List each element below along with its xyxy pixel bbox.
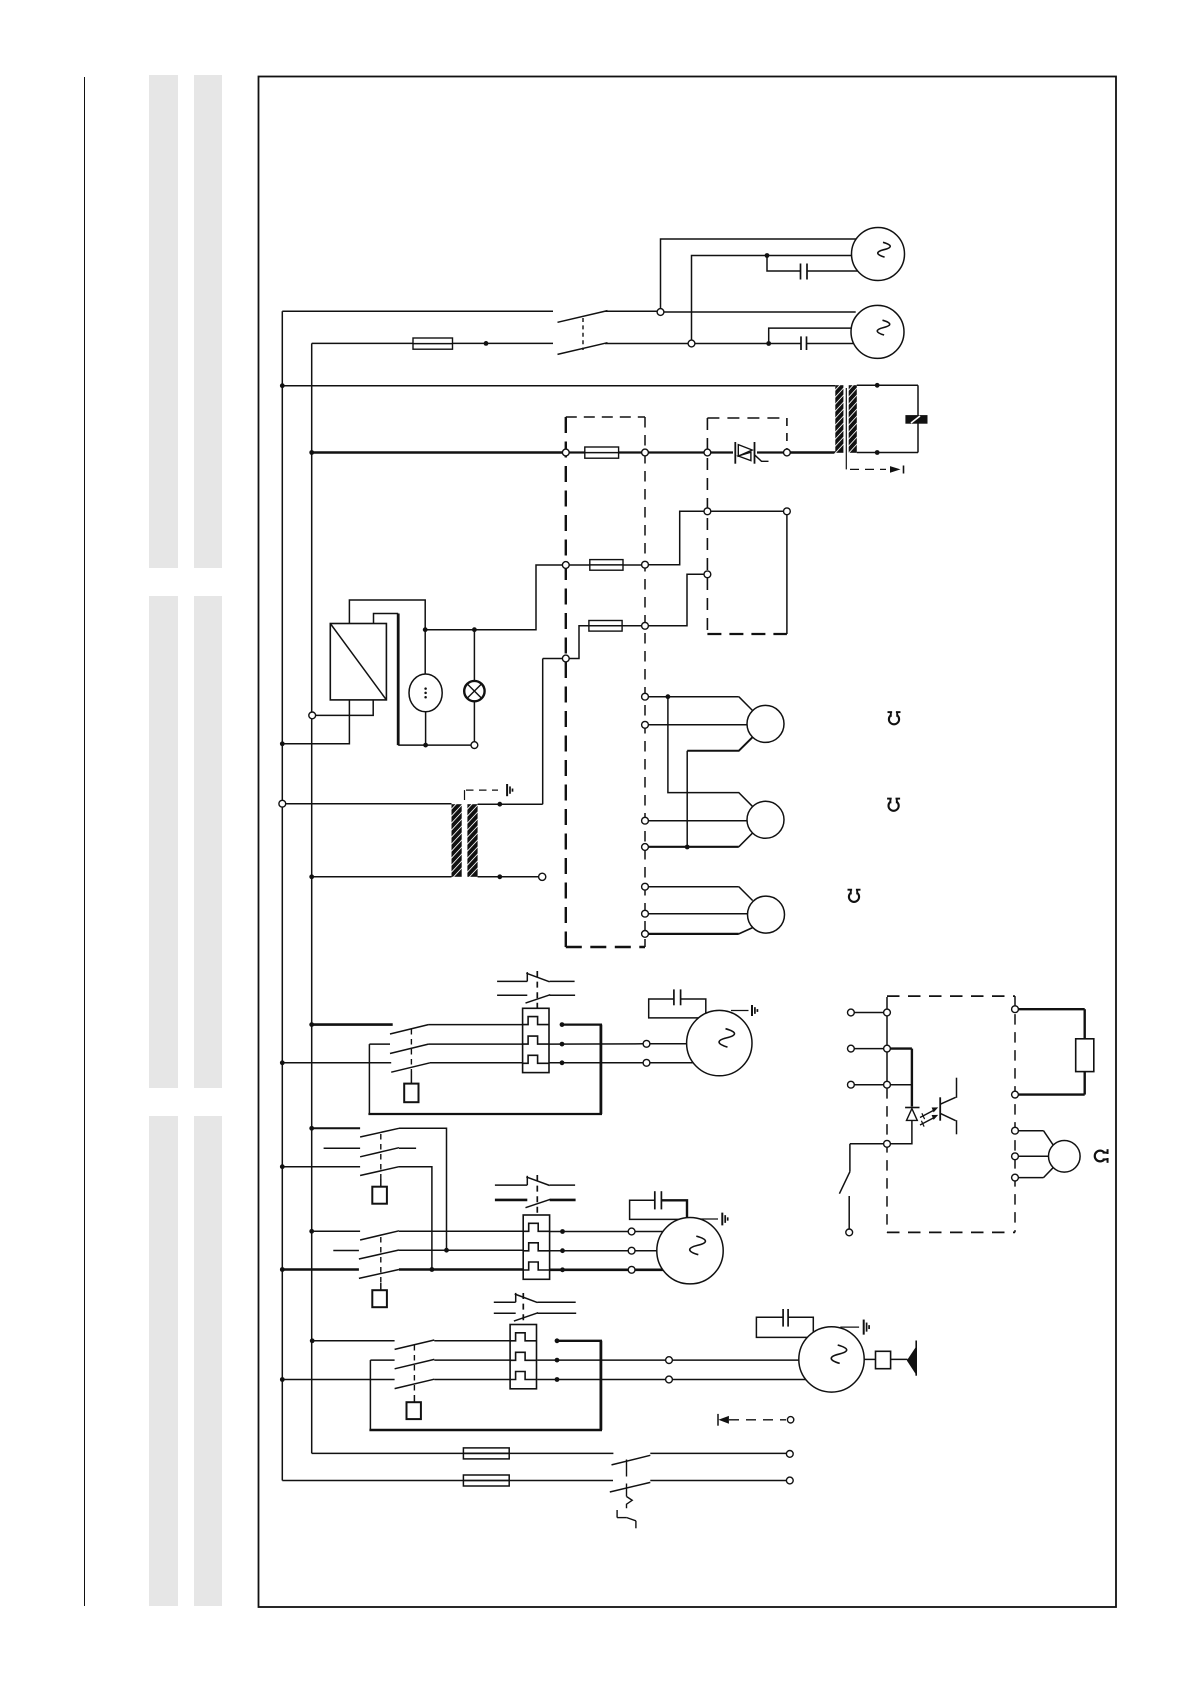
capacitor C2 (800, 336, 802, 350)
contactor K4 link (413, 1345, 415, 1395)
terminal heater 1b (642, 721, 649, 728)
enclosure dashed box left (565, 417, 567, 947)
fuse F6 (463, 1475, 509, 1486)
wire M2 bypass branch (769, 328, 851, 343)
wire K3 pole1 out (399, 1230, 523, 1232)
lamp E1 (464, 681, 484, 701)
aux link F7 (536, 971, 538, 1008)
wire rectifier top hook (349, 600, 425, 630)
wire fan lead3 (1018, 1177, 1043, 1179)
motor M1 (852, 228, 905, 281)
wire T1 secondary bottom (857, 452, 918, 454)
wire T2 secondary bottom (478, 876, 539, 878)
junction K4 pole3 feed (280, 1377, 285, 1382)
optocoupler light arrows (920, 1110, 934, 1117)
motor M5 (799, 1327, 864, 1392)
terminal actuator (787, 1417, 793, 1423)
triac V1 bars (734, 442, 736, 464)
junction K2 pole3 feed (280, 1164, 285, 1169)
junction M1 cap tap (765, 253, 770, 258)
wire heater1 bottom (687, 737, 752, 751)
wire rectifier bottom tab (316, 700, 374, 716)
terminal fan 3 (1012, 1174, 1019, 1181)
switch S1 link (582, 318, 584, 350)
wire F4 up to module (648, 574, 704, 626)
terminal M5 lead2 (666, 1376, 673, 1383)
wire M5 lead2 b (672, 1379, 805, 1381)
wire N bottom run (312, 1452, 464, 1454)
wire heater1 mid (648, 724, 747, 726)
transformer T2 secondary bar (467, 804, 477, 877)
wire L1 rail vertical (281, 311, 283, 1480)
junction K1 pole3 feed (280, 1060, 285, 1065)
wire F6 to S2 (509, 1480, 613, 1482)
wire fuse F3 row (569, 564, 590, 566)
terminal triac module in2 (704, 508, 711, 515)
wire K2 pole2 out stub (399, 1147, 416, 1149)
wire L1 bottom run (282, 1480, 463, 1482)
terminal module out 2 (1012, 1091, 1019, 1098)
label mho H1 (888, 711, 901, 724)
junction lamp tap (472, 627, 477, 632)
wire M5 lead2 (537, 1379, 665, 1381)
wire fan lead2 (1018, 1155, 1048, 1157)
junction rectifier tap (423, 627, 428, 632)
wire T2 secondary top (478, 803, 543, 805)
ground M3 (751, 1005, 753, 1016)
wire S3 lower lead (848, 1196, 850, 1229)
switch S1 pole 2 blade (558, 343, 608, 355)
terminal module in 1 (884, 1009, 891, 1016)
terminal heater 3a (642, 883, 649, 890)
terminal module stub 1 (848, 1009, 855, 1016)
wire C4 right thick (661, 1200, 687, 1217)
wire K1 pole2 feed (369, 1043, 390, 1045)
thermal trip linkage (626, 1460, 628, 1477)
junction K1 feed (309, 1022, 314, 1027)
motor M4 (657, 1218, 723, 1284)
wire module switch feed (850, 1143, 884, 1145)
terminal heater 3b (642, 910, 649, 917)
wire triac module right solid (786, 515, 788, 634)
terminal S3 (846, 1229, 853, 1236)
resistor R2 (1076, 1039, 1094, 1072)
wire bus upper (282, 385, 835, 387)
wire fan lead1 (1018, 1130, 1043, 1132)
terminal M4 lead3 (628, 1266, 635, 1273)
wire S1 pole1 to node (605, 310, 657, 312)
terminal bus fuse left (562, 449, 569, 456)
wire bus lower thick (312, 451, 563, 454)
enclosure dashed box top (566, 416, 645, 418)
aux link F9 (522, 1293, 524, 1325)
capacitor C5 (782, 1309, 784, 1327)
switch S1 pole 1 blade (558, 311, 608, 323)
label mho H2 (887, 798, 900, 811)
wire M4 lead2 b (635, 1250, 657, 1252)
terminal M4 lead1 (628, 1228, 635, 1235)
wire K2 pole2 stub (324, 1147, 361, 1149)
wire M5 lead1 (537, 1359, 665, 1361)
wire S2 pole2 out (650, 1480, 786, 1482)
coil K1 (404, 1084, 418, 1103)
terminal M4 lead2 (628, 1247, 635, 1254)
terminal F3 right (642, 561, 649, 568)
motor M2 (851, 305, 904, 358)
wire heater3 bottom (648, 933, 738, 935)
terminal triac module out1 (784, 449, 791, 456)
junction F9 out1 (555, 1338, 560, 1343)
terminal heater 2b (642, 844, 649, 851)
wire C4 left (630, 1200, 679, 1219)
wire node B up to M1 (692, 256, 852, 341)
contactor K3 pole1 blade (360, 1231, 399, 1240)
wire M1 cap branch (767, 256, 800, 272)
horn impeller (907, 1347, 916, 1375)
terminal triac module in1 (704, 449, 711, 456)
terminal module stub 3 (848, 1081, 855, 1088)
contactor K2 link (380, 1134, 382, 1179)
switch S2 pole1 blade (612, 1455, 651, 1465)
aux contacts F7 (497, 980, 527, 982)
grey sidebar band 3b (194, 1116, 222, 1606)
heating element R1 (905, 415, 927, 424)
switch S2 pole2 blade (610, 1482, 651, 1492)
wire K3 pole3 feed thick (282, 1268, 359, 1271)
ground M5 (863, 1320, 865, 1335)
wire C5 left (756, 1317, 807, 1337)
junction F8 out3 (560, 1267, 565, 1272)
wire K4 pole2 feed (370, 1359, 394, 1361)
actuator dashed arrow (718, 1416, 729, 1424)
module dashed box (887, 995, 1015, 997)
wire resistor loop top thick (1018, 1008, 1084, 1010)
contactor K4 pole1 blade (395, 1340, 435, 1349)
wire C5 right (788, 1317, 813, 1332)
junction F7 out2 (560, 1042, 565, 1047)
wire T2 screen (464, 790, 466, 800)
wire T2 secondary up (542, 659, 544, 805)
junction K3 pole3 feed (280, 1267, 285, 1272)
wire fuse F4 row (569, 626, 589, 659)
wire K4 pole2 out (434, 1359, 510, 1361)
terminal triac module gate (704, 571, 711, 578)
enclosure dashed box right (644, 417, 646, 947)
wire K2 pole1 feed (312, 1127, 360, 1129)
wire rectifier AC return (282, 700, 349, 744)
wire T2 primary bottom (312, 876, 452, 878)
wire C3 left (649, 999, 699, 1018)
coil K2 (372, 1187, 387, 1204)
contactor K3 pole3 blade (359, 1270, 399, 1279)
wire node A to M2 (664, 311, 856, 313)
junction L1 bus tap (280, 383, 285, 388)
wire coupling to horn (891, 1358, 908, 1360)
grey sidebar band 1b (194, 75, 222, 568)
terminal M3 lead1 (643, 1040, 650, 1047)
terminal heater 1a (642, 693, 649, 700)
wire heater3 top (648, 886, 738, 888)
contactor K2 pole3 blade (360, 1167, 399, 1176)
wire LED feed thick (890, 1047, 912, 1049)
wire K1 pole3 feed (282, 1062, 391, 1064)
wire heater1 top (648, 696, 738, 698)
wire K4 pole3 out (434, 1379, 510, 1381)
wire module stub 1 (854, 1012, 883, 1014)
junction F8 out2 (560, 1248, 565, 1253)
terminal triac module out2 (784, 508, 791, 515)
LED D1 (905, 1107, 919, 1109)
terminal module in 3 (884, 1081, 891, 1088)
fuse F2 (585, 447, 619, 458)
wire node A up to M1 (661, 239, 857, 309)
wire heater2 feed (668, 697, 753, 807)
wire N rail vertical (311, 343, 313, 1453)
wire S2 pole1 out (650, 1452, 786, 1454)
wire M4 earth lead (700, 1218, 718, 1220)
junction K3 pole1 feed (309, 1229, 314, 1234)
contactor K2 pole2 blade (360, 1148, 399, 1157)
terminal module stub 2 (848, 1045, 855, 1052)
contactor K1 pole1 blade (390, 1025, 428, 1034)
terminal M3 lead2 (643, 1059, 650, 1066)
wire lamp top lead (473, 630, 475, 681)
wire K4 pole1 out (434, 1340, 510, 1342)
wire F1 to S1 (453, 342, 554, 344)
transformer T1 secondary bar (849, 385, 857, 453)
contactor K2 pole1 blade (360, 1128, 399, 1137)
wire L1 to switch S1 (282, 310, 553, 312)
triac V1 triangles (738, 445, 752, 457)
schematic frame (259, 77, 1117, 1608)
junction heater bottom (685, 845, 690, 850)
switch S3 blade (839, 1172, 850, 1194)
grey sidebar band 2b (194, 596, 222, 1088)
terminal bottom 2 (786, 1477, 793, 1484)
wire F4 to box edge (622, 625, 642, 627)
fuse F5 (463, 1448, 509, 1459)
contactor K3 pole2 blade (359, 1250, 399, 1259)
aux contacts F8 (495, 1184, 527, 1186)
wire module stub 2 (854, 1048, 883, 1050)
contactor K1 link (410, 1029, 412, 1071)
wire F5 to S2 (509, 1452, 613, 1454)
fuse F1 (413, 338, 453, 349)
wire M3 lead1 (549, 1043, 643, 1045)
terminal rectifier AC (309, 712, 316, 719)
junction T2 primary bottom (309, 874, 314, 879)
capacitor C3 (673, 989, 675, 1005)
wire M3 lead2 (549, 1062, 643, 1064)
wire K3 pole3 out thick (399, 1268, 523, 1271)
capacitor C1 (800, 264, 802, 280)
ground M4 (721, 1213, 723, 1226)
overload relay F8 (523, 1215, 549, 1279)
contactor K4 pole3 blade (395, 1379, 435, 1388)
fuse F4 (589, 621, 622, 632)
grey sidebar band 3a (149, 1116, 178, 1606)
wire T1 secondary right (917, 385, 919, 452)
heater H3 (748, 896, 785, 933)
wire K3 pole2 out (399, 1249, 523, 1251)
wire S1 pole2 to node (605, 343, 688, 345)
wire triac to node (757, 451, 784, 453)
grey sidebar band 2a (149, 596, 178, 1088)
terminal F4 right (642, 622, 649, 629)
terminal bus fuse right (642, 449, 649, 456)
wire heater2 mid (648, 820, 747, 822)
wire F3 up to module (648, 511, 704, 564)
wire K3 pole1 feed (312, 1230, 360, 1232)
terminal F4 left (562, 655, 569, 662)
terminal module in 4 (884, 1140, 891, 1147)
enclosure dashed box bottom (566, 946, 645, 948)
capacitor C4 (654, 1191, 656, 1209)
junction F9 out3 (555, 1377, 560, 1382)
wire M3 lead2 b (650, 1062, 693, 1064)
transformer T2 primary bar (452, 804, 462, 877)
heater H1 (747, 705, 784, 742)
wire M3 lead1 b (650, 1043, 688, 1045)
junction F7 out1 (560, 1022, 565, 1027)
wire pump bottom lead (425, 712, 427, 745)
wire lamp bottom lead (473, 701, 475, 741)
wire M4 lead1 (550, 1231, 629, 1233)
wire node B to M2 (695, 343, 801, 345)
terminal F3 left (562, 562, 569, 569)
ground T2 screen (506, 784, 508, 796)
wire M4 lead1 b (635, 1231, 679, 1233)
transformer T1 primary bar (835, 385, 843, 453)
label mho H3 (848, 889, 861, 902)
wire M4 lead3 thick (550, 1269, 629, 1272)
wire F3 terminal to DC node (425, 565, 562, 630)
wire heater2 bottom (739, 833, 753, 847)
aux link F8 (536, 1175, 538, 1215)
terminal bottom 1 (786, 1451, 793, 1458)
node terminal A (657, 309, 664, 316)
wire K3 pole2 stub (333, 1250, 359, 1252)
wire K2 pole3 feed (282, 1166, 360, 1168)
wire C2 to M2 (807, 343, 856, 345)
phototransistor Q1 (939, 1097, 941, 1120)
junction K4 pole1 feed (310, 1338, 315, 1343)
terminal fan 2 (1012, 1153, 1019, 1160)
motor M3 (687, 1010, 752, 1075)
wire K1 pole1 feed thick (312, 1023, 393, 1026)
contactor K4 pole2 blade (395, 1359, 435, 1368)
wire F2 to box (619, 451, 642, 453)
wire LED anode (890, 1120, 912, 1143)
rectifier U1 (330, 624, 386, 700)
wire T2 primary top (286, 803, 452, 805)
wire M4 lead2 (550, 1250, 629, 1252)
overload relay F7 (523, 1008, 549, 1072)
terminal T2 primary top (279, 800, 286, 807)
triac V1 gate (755, 455, 769, 461)
terminal module out 1 (1012, 1006, 1019, 1013)
junction F9 out2 (555, 1358, 560, 1363)
wire K2 pole1 out (399, 1128, 447, 1250)
wire box to triac (648, 451, 733, 453)
coupling M5 (876, 1351, 891, 1368)
wire M4 lead3 b thick (635, 1269, 663, 1272)
wire module stub 3 (854, 1084, 883, 1086)
wire C3 right (681, 999, 706, 1013)
wire module in3 link (890, 1084, 911, 1086)
terminal heater 3c (642, 931, 649, 938)
wire pump top lead (424, 630, 426, 674)
wire K2 pole3 out (399, 1167, 432, 1270)
fuse F3 (590, 560, 623, 571)
junction M2 cap tap (766, 341, 771, 346)
wire K1 loop rect (368, 1044, 370, 1114)
motor M5 shaft (864, 1358, 875, 1360)
terminal heater 2a (642, 817, 649, 824)
pump motor P1 (409, 674, 442, 712)
node terminal B (688, 340, 695, 347)
wire C1 to M1 (807, 270, 858, 272)
junction K2 pole1 feed (309, 1126, 314, 1131)
wire K1 pole2 out (428, 1043, 522, 1045)
terminal M5 lead1 (666, 1357, 673, 1364)
wire K1 pole3 out (430, 1062, 523, 1064)
grey sidebar band 1a (149, 75, 178, 568)
coil K4 (407, 1402, 421, 1419)
wire DC return (398, 744, 471, 746)
wire M5 earth lead (840, 1326, 859, 1328)
junction N bus tap (309, 450, 314, 455)
wire M3 earth lead (731, 1010, 749, 1012)
contactor K1 pole2 blade (390, 1044, 428, 1053)
wire triac module inner (711, 510, 784, 512)
wire F3 to box edge (623, 564, 642, 566)
wire K4 pole3 feed (282, 1379, 394, 1381)
triac module dashed box (707, 417, 787, 419)
wire fuse F1 feed (312, 342, 413, 344)
wire heater3 mid (648, 913, 747, 915)
wire F2 left (569, 451, 585, 453)
overload relay F9 (510, 1325, 536, 1389)
wire K4 loop rect (369, 1360, 371, 1430)
heater H2 (747, 801, 784, 838)
terminal T2 secondary (539, 873, 546, 880)
wire M5 lead1 b (672, 1359, 798, 1361)
label ohm M6 (1095, 1149, 1109, 1163)
terminal module in 2 (884, 1045, 891, 1052)
junction F8 out1 (560, 1229, 565, 1234)
terminal DC return (471, 742, 478, 749)
wire rectifier inner hook thick (374, 614, 399, 624)
contactor K1 pole3 blade (391, 1063, 430, 1072)
wire resistor loop bottom thick (1083, 1072, 1085, 1095)
wire T1 secondary top (857, 384, 918, 386)
junction F7 out3 (560, 1060, 565, 1065)
thermostat actuator link (845, 388, 847, 469)
fan motor M6 (1049, 1141, 1081, 1173)
wire K4 pole1 feed (312, 1340, 395, 1342)
wire K1 pole1 out (428, 1024, 522, 1026)
coil K3 (372, 1290, 387, 1307)
left margin rule (84, 77, 86, 1606)
wire module edge internal (886, 1016, 888, 1081)
aux contacts F9 (494, 1301, 516, 1303)
terminal fan 1 (1012, 1127, 1019, 1134)
wire T2 terminal link (543, 658, 563, 660)
contactor K3 link (380, 1237, 382, 1283)
wire node to T1 (790, 451, 835, 454)
